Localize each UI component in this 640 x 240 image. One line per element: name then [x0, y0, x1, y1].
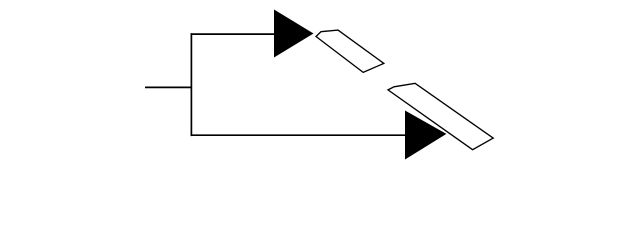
wire: vertical branch bus: [190, 33, 192, 136]
slanted plate (top): [316, 30, 384, 72]
wire: bottom branch to amplifier: [191, 134, 407, 136]
amplifier triangle (top): [274, 10, 314, 58]
wire: input lead: [145, 86, 191, 88]
amplifier triangle (bottom): [405, 111, 446, 160]
slanted plate (bottom): [388, 83, 493, 149]
wire: top branch to amplifier: [191, 33, 276, 35]
